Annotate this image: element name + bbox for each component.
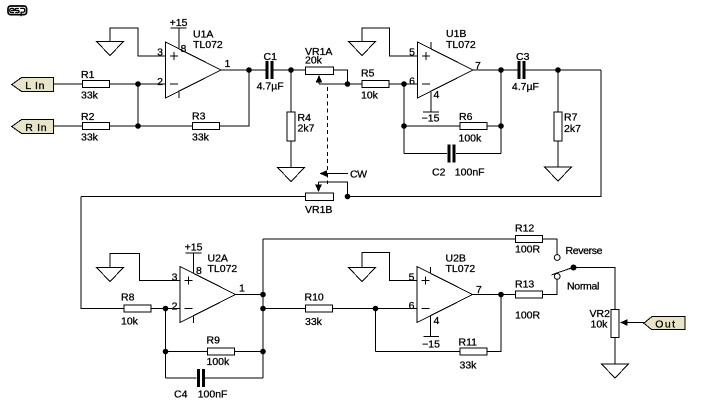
wire C3 to right corner bbox=[526, 69, 602, 71]
resistor R7 body bbox=[554, 112, 562, 141]
wiper arrow VR1A bbox=[316, 75, 323, 84]
junction switch common bbox=[571, 265, 577, 271]
wire U2A output bus vertical bbox=[262, 239, 264, 378]
svg-text:R8: R8 bbox=[121, 292, 135, 304]
wire R7 to ground bbox=[557, 142, 559, 168]
output tag Out bbox=[644, 317, 685, 331]
switch contact Reverse bbox=[554, 255, 560, 261]
ground (VR2) bbox=[602, 364, 629, 378]
svg-text:100k: 100k bbox=[459, 133, 483, 145]
wire C4 row right bbox=[205, 377, 263, 379]
wire VR1B left terminal to left bus bbox=[81, 196, 305, 198]
power -15 supply U2B pin 4 bbox=[422, 316, 440, 351]
svg-text:6: 6 bbox=[409, 300, 415, 312]
op-amp U2B body bbox=[417, 267, 473, 323]
svg-text:5: 5 bbox=[409, 272, 415, 284]
CW rotation pointer arrow bbox=[320, 170, 349, 177]
junction node VR1B wiper/right terminal bbox=[345, 194, 351, 200]
wiper arrow VR2 bbox=[620, 319, 644, 326]
wire U1B feedback vertical right bbox=[500, 70, 502, 154]
wire R10 to U2B pin 6 bbox=[333, 308, 417, 310]
ground (R4) bbox=[278, 168, 305, 182]
svg-text:4: 4 bbox=[434, 315, 440, 327]
junction node R6 left bbox=[401, 123, 407, 129]
op-amp U1A body bbox=[166, 42, 222, 98]
ground (U1B non-inverting input) bbox=[349, 42, 376, 56]
svg-text:R5: R5 bbox=[361, 68, 375, 80]
svg-text:C1: C1 bbox=[264, 51, 278, 63]
junction node R6 right bbox=[498, 123, 504, 129]
svg-text:C2: C2 bbox=[432, 167, 446, 179]
wire bus to R10 bbox=[263, 308, 305, 310]
svg-text:8: 8 bbox=[181, 43, 187, 55]
op-amp U1B body bbox=[418, 42, 474, 98]
wire R6 to output vertical bbox=[488, 125, 502, 127]
wire U1B feedback vertical left bbox=[403, 84, 405, 154]
junction node R1/R2 sum (left) bbox=[135, 81, 141, 87]
svg-text:8: 8 bbox=[196, 265, 202, 277]
junction U1B output node bbox=[498, 67, 504, 73]
svg-text:33k: 33k bbox=[81, 90, 99, 102]
svg-text:−15: −15 bbox=[422, 113, 440, 125]
resistor R9 body bbox=[208, 348, 235, 355]
power +15 supply U1A pin 8 bbox=[170, 17, 188, 48]
wire node to R4 bbox=[290, 70, 292, 112]
svg-text:100nF: 100nF bbox=[198, 389, 228, 401]
svg-text:33k: 33k bbox=[81, 132, 99, 144]
wire VR2 to ground bbox=[614, 338, 616, 364]
wire U2A pin 3 to ground bbox=[110, 254, 180, 281]
potentiometer VR2 body bbox=[611, 310, 619, 338]
svg-text:R3: R3 bbox=[192, 111, 206, 123]
svg-text:TL072: TL072 bbox=[446, 39, 476, 51]
svg-text:TL072: TL072 bbox=[446, 263, 476, 275]
svg-text:L In: L In bbox=[25, 80, 45, 92]
potentiometer VR1B body bbox=[306, 193, 334, 201]
resistor R11 body bbox=[460, 348, 487, 355]
wire R9 to bus bbox=[235, 351, 263, 353]
junction node R9 left bbox=[163, 349, 169, 355]
switch contact Normal bbox=[554, 274, 560, 280]
svg-text:100R: 100R bbox=[515, 244, 541, 256]
wire C2 row left bbox=[404, 153, 447, 155]
svg-text:R In: R In bbox=[25, 122, 47, 134]
wire R1 to U1A pin 2 bbox=[110, 83, 166, 85]
svg-text:4: 4 bbox=[434, 89, 440, 101]
wire L In to R1 bbox=[54, 83, 82, 85]
wire U2A output to bus bbox=[236, 294, 264, 296]
resistor R5 body bbox=[362, 81, 389, 88]
svg-text:+15: +15 bbox=[185, 242, 203, 254]
junction U2A output node bbox=[260, 292, 266, 298]
junction node bus/R9 bbox=[260, 349, 266, 355]
wire R11 up to output bbox=[488, 295, 502, 352]
svg-text:10k: 10k bbox=[591, 319, 609, 331]
svg-text:10k: 10k bbox=[361, 90, 379, 102]
svg-text:C3: C3 bbox=[516, 51, 530, 63]
wire right edge down to VR1B row bbox=[348, 70, 602, 197]
svg-text:2k7: 2k7 bbox=[564, 123, 581, 135]
junction U1A output node bbox=[246, 67, 252, 73]
wire junction vertical R1 row to R2 row bbox=[137, 84, 139, 126]
svg-text:100R: 100R bbox=[515, 310, 541, 322]
svg-text:R7: R7 bbox=[564, 112, 578, 124]
op-amp U2A body bbox=[180, 267, 236, 324]
svg-text:−15: −15 bbox=[422, 339, 440, 351]
ground (U1A non-inverting input) bbox=[97, 42, 124, 56]
svg-text:+15: +15 bbox=[170, 17, 188, 29]
ground (R7) bbox=[545, 167, 572, 181]
svg-text:C4: C4 bbox=[174, 389, 188, 401]
junction node bus/R10 bbox=[260, 306, 266, 312]
wire wiper node to R5 bbox=[348, 83, 362, 85]
svg-text:R1: R1 bbox=[81, 69, 95, 81]
junction node VR1A wiper/R5 bbox=[345, 81, 351, 87]
wire R12 to reverse contact bbox=[543, 239, 557, 255]
junction node C3/R7 bbox=[555, 67, 561, 73]
wire VR1B wiper loop bbox=[319, 182, 348, 197]
junction node U2A inverting input bbox=[163, 306, 169, 312]
resistor R6 body bbox=[460, 123, 487, 130]
svg-text:4.7µF: 4.7µF bbox=[257, 81, 284, 93]
wire C2 row right bbox=[456, 153, 501, 155]
wire U2B feedback down bbox=[375, 309, 377, 352]
svg-text:33k: 33k bbox=[305, 316, 323, 328]
wire R5 to U1B pin 6 bbox=[390, 83, 418, 85]
capacitor C3 body bbox=[518, 61, 521, 79]
resistor R13 body bbox=[516, 291, 543, 298]
wire node to R6 bbox=[404, 125, 460, 127]
svg-text:R10: R10 bbox=[305, 292, 324, 304]
svg-text:3: 3 bbox=[157, 47, 163, 59]
svg-text:R11: R11 bbox=[459, 337, 478, 349]
wire R In to R2 bbox=[54, 125, 82, 127]
wire R13 to normal contact bbox=[543, 280, 557, 295]
junction node U1B inverting input bbox=[401, 81, 407, 87]
resistor R8 body bbox=[124, 305, 151, 312]
svg-text:R6: R6 bbox=[459, 111, 473, 123]
wire VR1A wiper to R5 node bbox=[319, 83, 348, 85]
wire node to R7 bbox=[557, 70, 559, 112]
resistor R3 body bbox=[193, 123, 220, 130]
wire C1 to VR1A bbox=[273, 69, 305, 71]
junction node R2/R3 bbox=[135, 123, 141, 129]
svg-text:3: 3 bbox=[172, 272, 178, 284]
svg-text:R13: R13 bbox=[515, 279, 534, 291]
wire U1B output to C3 bbox=[473, 69, 517, 71]
svg-text:10k: 10k bbox=[121, 316, 139, 328]
wire R4 to ground bbox=[290, 142, 292, 168]
wire U1A pin 3 to ground bbox=[110, 28, 166, 56]
power -15 supply U1B pin 4 bbox=[422, 92, 440, 125]
wire U1A output to C1 bbox=[221, 69, 265, 71]
wire U2B pin 5 to ground bbox=[362, 253, 417, 281]
wire bus to R12 bbox=[263, 238, 515, 240]
input tag R In bbox=[12, 120, 54, 135]
svg-text:2k7: 2k7 bbox=[298, 123, 315, 135]
svg-text:Normal: Normal bbox=[567, 281, 599, 293]
svg-text:33k: 33k bbox=[460, 360, 478, 372]
wiper arrow VR1B bbox=[315, 182, 322, 192]
svg-text:R9: R9 bbox=[207, 335, 221, 347]
svg-text:4.7µF: 4.7µF bbox=[512, 81, 539, 93]
svg-text:VR1B: VR1B bbox=[305, 204, 332, 216]
svg-text:1: 1 bbox=[225, 58, 231, 70]
wire C4 row left bbox=[166, 377, 197, 379]
junction node C1/R4/VR1A bbox=[288, 67, 294, 73]
ground (U2B non-inverting input) bbox=[349, 268, 376, 282]
svg-text:R2: R2 bbox=[81, 111, 95, 123]
junction U2B output node bbox=[498, 292, 504, 298]
svg-text:2: 2 bbox=[172, 301, 178, 313]
wire U1B pin 5 to ground bbox=[362, 28, 418, 56]
resistor R1 body bbox=[83, 81, 110, 88]
svg-text:TL072: TL072 bbox=[193, 39, 223, 51]
svg-text:100k: 100k bbox=[207, 356, 231, 368]
wire R2 to R3 bbox=[110, 125, 192, 127]
ground (U2A non-inverting input) bbox=[97, 268, 124, 282]
wire R8 to U2A pin 2 bbox=[152, 308, 181, 310]
wire VR1A right terminal down to wiper node bbox=[334, 70, 348, 84]
capacitor C4 body bbox=[197, 369, 200, 387]
wire U2A feedback vertical left bbox=[165, 309, 167, 379]
wire R3 to U1A output node bbox=[220, 70, 249, 126]
esp logo bbox=[8, 6, 27, 16]
power +15 supply U2A pin 8 bbox=[185, 242, 203, 274]
wire switch common to VR2 bbox=[574, 268, 616, 310]
svg-text:2: 2 bbox=[157, 76, 163, 88]
wire left bus down to R8 bbox=[81, 197, 124, 309]
svg-text:100nF: 100nF bbox=[455, 167, 485, 179]
resistor R2 body bbox=[83, 123, 110, 130]
svg-text:6: 6 bbox=[409, 76, 415, 88]
capacitor C1 body bbox=[265, 61, 268, 79]
svg-text:33k: 33k bbox=[192, 132, 210, 144]
wire node to R9 bbox=[166, 351, 208, 353]
svg-text:Out: Out bbox=[655, 319, 676, 331]
junction node U2B inverting input bbox=[373, 306, 379, 312]
potentiometer VR1A body bbox=[306, 67, 334, 75]
svg-text:Reverse: Reverse bbox=[566, 245, 603, 257]
svg-text:20k: 20k bbox=[305, 55, 323, 67]
wire U2B output to R13 bbox=[473, 294, 516, 296]
capacitor C2 body bbox=[448, 145, 451, 163]
svg-text:R12: R12 bbox=[515, 223, 534, 235]
resistor R12 body bbox=[516, 236, 543, 243]
svg-text:5: 5 bbox=[409, 47, 415, 59]
resistor R4 body bbox=[287, 112, 295, 141]
switch blade bbox=[552, 267, 574, 275]
resistor R10 body bbox=[306, 305, 333, 312]
gang link dashed line VR1A-VR1B bbox=[327, 87, 329, 184]
input tag L In bbox=[12, 78, 54, 93]
wire feedback to R11 bbox=[376, 351, 460, 353]
svg-text:TL072: TL072 bbox=[208, 263, 238, 275]
svg-text:CW: CW bbox=[350, 169, 367, 181]
svg-text:1: 1 bbox=[239, 283, 245, 295]
